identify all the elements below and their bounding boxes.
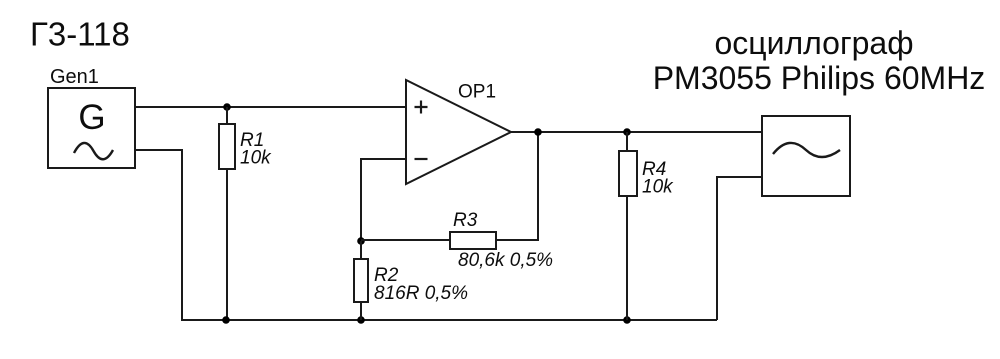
node junction R4 top (623, 128, 631, 136)
resistor R3 (450, 232, 496, 249)
op-amp - input marking (415, 158, 428, 160)
wire oscilloscope lower lead to bottom rail (717, 177, 762, 320)
wire R3 left lead (361, 239, 450, 241)
wire R4 bottom lead (626, 196, 628, 320)
svg-text:Г3-118: Г3-118 (30, 16, 130, 53)
svg-text:OP1: OP1 (458, 82, 496, 103)
generator sine symbol (74, 143, 113, 159)
svg-text:PM3055 Philips 60MHz: PM3055 Philips 60MHz (653, 60, 986, 96)
svg-text:Gen1: Gen1 (50, 66, 99, 88)
wire inverting input (361, 159, 406, 241)
node junction feedback at output (534, 128, 542, 136)
resistor R1 (219, 124, 235, 169)
wire R3 right lead up to output node (496, 132, 538, 240)
oscilloscope sine symbol (773, 143, 840, 157)
wire R4 top lead (626, 132, 628, 151)
svg-text:10k: 10k (642, 177, 674, 198)
oscilloscope box (762, 116, 850, 196)
wire R2 top lead (360, 241, 362, 259)
svg-text:G: G (78, 98, 105, 137)
wire bottom rail (181, 319, 717, 321)
wire R2 bottom lead (360, 302, 362, 320)
node junction R2/R3 (357, 237, 365, 245)
svg-text:осциллограф: осциллограф (714, 25, 913, 61)
op-amp + input marking (415, 101, 428, 114)
node junction R2 at bottom rail (357, 316, 365, 324)
svg-text:816R 0,5%: 816R 0,5% (374, 283, 468, 304)
wire op-amp output to oscilloscope (511, 131, 762, 133)
wire R1 bottom lead to ground rail (226, 169, 228, 320)
generator Gen1 box (48, 88, 135, 168)
wire gen top output to op-amp + input (135, 106, 406, 108)
node junction R1 at bottom rail (222, 316, 230, 324)
wire gen lower output (135, 150, 182, 320)
node junction at R1 top (223, 103, 231, 111)
svg-text:R3: R3 (453, 210, 478, 231)
svg-text:80,6k 0,5%: 80,6k 0,5% (458, 250, 553, 271)
wire R1 top lead (226, 107, 228, 124)
node junction R4 at bottom rail (623, 316, 631, 324)
resistor R2 (354, 259, 368, 302)
resistor R4 (619, 151, 637, 196)
svg-text:10k: 10k (240, 148, 272, 169)
op-amp OP1 (406, 80, 511, 184)
